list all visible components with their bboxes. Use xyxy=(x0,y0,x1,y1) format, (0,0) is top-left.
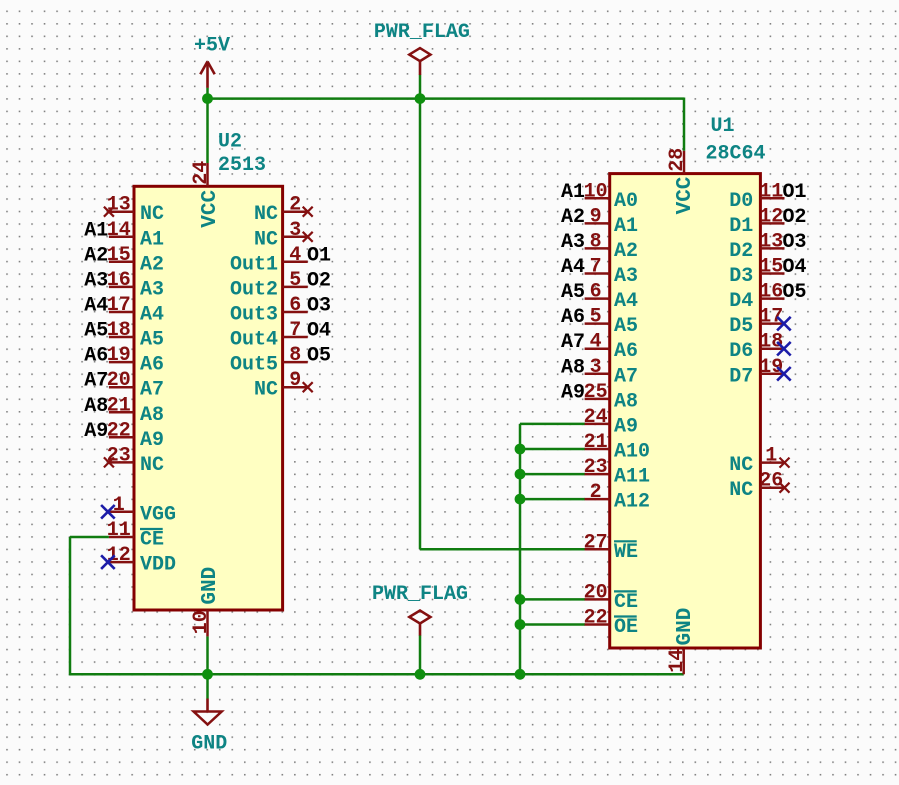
svg-text:A9: A9 xyxy=(84,420,108,443)
svg-text:28C64: 28C64 xyxy=(706,143,766,166)
junction node A12 bus xyxy=(515,494,526,505)
U2 pin 23 (NC) left xyxy=(104,444,164,477)
U1 pin 14 (GND) bottom xyxy=(666,608,697,673)
svg-text:11: 11 xyxy=(107,519,131,542)
junction node PWR_FLAG bottom xyxy=(415,669,426,680)
net label A6 (U1 pin 5) xyxy=(561,306,585,329)
svg-text:22: 22 xyxy=(107,419,131,442)
net label O1 (U2 pin 4) xyxy=(307,244,331,267)
U1 pin 7 (A3) left xyxy=(585,256,638,289)
U1 value 28C64 xyxy=(706,143,766,166)
svg-text:A1: A1 xyxy=(561,181,585,204)
svg-text:A3: A3 xyxy=(84,269,108,292)
svg-text:A7: A7 xyxy=(140,379,164,402)
svg-text:23: 23 xyxy=(584,456,608,479)
svg-text:A4: A4 xyxy=(614,290,638,313)
U1 pin 9 (A1) left xyxy=(585,205,638,238)
svg-text:A2: A2 xyxy=(614,240,638,263)
svg-text:Out4: Out4 xyxy=(230,329,278,352)
svg-text:A8: A8 xyxy=(84,395,108,418)
svg-text:6: 6 xyxy=(590,281,602,304)
wire: U2 GND pin 10 down to bus and GND symbol xyxy=(206,636,209,698)
U2 pin 8 (Out5) right xyxy=(230,344,308,377)
wire: stub to U1 A12 pin2 xyxy=(520,498,585,501)
svg-text:8: 8 xyxy=(289,344,301,367)
U2 pin 4 (Out1) right xyxy=(230,244,308,277)
svg-text:16: 16 xyxy=(107,269,131,292)
U1 pin 24 (A9) left xyxy=(584,406,638,439)
svg-text:18: 18 xyxy=(107,319,131,342)
wire: +5V top bus from +5V node to U1 VCC corner xyxy=(208,97,685,100)
svg-text:GND: GND xyxy=(674,608,697,646)
svg-text:A4: A4 xyxy=(84,295,108,318)
svg-text:A5: A5 xyxy=(140,329,164,352)
net label A4 (U2 pin 17) xyxy=(84,295,108,318)
wire: stub to U1 A11 pin23 xyxy=(520,473,585,476)
svg-text:U1: U1 xyxy=(711,115,735,138)
U2 pin 17 (A4) left xyxy=(107,294,164,327)
svg-text:D0: D0 xyxy=(729,190,753,213)
power symbol GND xyxy=(191,699,227,756)
junction node GND/U2 xyxy=(202,669,213,680)
svg-text:Out3: Out3 xyxy=(230,304,278,327)
svg-text:A10: A10 xyxy=(614,441,650,464)
U2 pin 3 (NC) right xyxy=(254,219,313,252)
svg-text:Out1: Out1 xyxy=(230,253,278,276)
wire: U1 GND pin 14 stub xyxy=(682,648,685,674)
net label O2 (U1 pin 12) xyxy=(783,206,807,229)
U2 pin 7 (Out4) right xyxy=(230,319,308,352)
svg-text:3: 3 xyxy=(590,356,602,379)
wire: bottom GND bus xyxy=(70,673,684,676)
net label A6 (U2 pin 19) xyxy=(84,345,108,368)
U1 pin 22 (OE) left xyxy=(584,607,638,640)
svg-text:22: 22 xyxy=(584,607,608,630)
svg-text:O4: O4 xyxy=(783,256,807,279)
svg-text:+5V: +5V xyxy=(194,35,230,58)
svg-text:24: 24 xyxy=(584,406,608,429)
svg-text:17: 17 xyxy=(107,294,131,317)
U1 pin 28 (VCC) top xyxy=(666,148,697,215)
U2 value 2513 xyxy=(218,154,266,177)
svg-text:14: 14 xyxy=(107,219,131,242)
wire: stub to U1 A9 pin24 xyxy=(520,423,585,426)
U1 pin 19 (D7) right xyxy=(729,356,790,389)
svg-text:A2: A2 xyxy=(561,206,585,229)
svg-text:27: 27 xyxy=(584,531,608,554)
net label A9 (U1 pin 25) xyxy=(561,381,585,404)
U1 pin 13 (D2) right xyxy=(729,230,784,263)
U1 pin 8 (A2) left xyxy=(585,230,638,263)
U1 pin 23 (A11) left xyxy=(584,456,650,489)
svg-text:A4: A4 xyxy=(561,256,585,279)
svg-text:NC: NC xyxy=(254,228,278,251)
net label A8 (U1 pin 3) xyxy=(561,356,585,379)
net label A7 (U1 pin 4) xyxy=(561,331,585,354)
svg-text:A2: A2 xyxy=(140,253,164,276)
svg-text:10: 10 xyxy=(584,180,608,203)
svg-text:11: 11 xyxy=(759,180,783,203)
svg-text:26: 26 xyxy=(759,470,783,493)
svg-text:19: 19 xyxy=(107,344,131,367)
svg-text:8: 8 xyxy=(590,230,602,253)
svg-text:WE: WE xyxy=(614,541,638,564)
U2 pin 19 (A6) left xyxy=(107,344,164,377)
junction node PWR_FLAG top xyxy=(415,93,426,104)
U1 pin 18 (D6) right xyxy=(729,331,790,364)
wire: horizontal to U1 pin 27 WE xyxy=(420,548,585,551)
svg-text:20: 20 xyxy=(107,369,131,392)
wire: U2 VCC drop from top bus to pin 24 xyxy=(206,88,209,163)
svg-text:A0: A0 xyxy=(614,190,638,213)
svg-text:U2: U2 xyxy=(218,131,242,154)
svg-text:2: 2 xyxy=(590,481,602,504)
U2 pin 10 (GND) bottom xyxy=(190,567,222,637)
U2 pin 20 (A7) left xyxy=(107,369,164,402)
svg-text:A11: A11 xyxy=(614,466,650,489)
svg-text:VCC: VCC xyxy=(199,189,222,227)
svg-text:A1: A1 xyxy=(614,215,638,238)
svg-text:A7: A7 xyxy=(561,331,585,354)
svg-text:4: 4 xyxy=(289,244,301,267)
svg-text:NC: NC xyxy=(140,203,164,226)
svg-text:NC: NC xyxy=(729,454,753,477)
svg-text:A6: A6 xyxy=(561,306,585,329)
svg-text:O2: O2 xyxy=(307,269,331,292)
svg-text:O1: O1 xyxy=(307,244,331,267)
U1 pin 3 (A7) left xyxy=(585,356,638,389)
net label A3 (U1 pin 8) xyxy=(561,231,585,254)
U1 pin 2 (A12) left xyxy=(585,481,650,513)
wire: PWR_FLAG (bottom) stem to bus xyxy=(419,635,422,674)
U1 pin 20 (CE) left xyxy=(584,581,638,614)
wire: stub to U1 A10 pin21 xyxy=(520,448,585,451)
svg-text:A5: A5 xyxy=(614,315,638,338)
U2 pin 11 (CE) left xyxy=(107,519,164,552)
svg-text:O5: O5 xyxy=(307,345,331,368)
U1 pin 10 (A0) left xyxy=(584,180,638,213)
U2 pin 5 (Out2) right xyxy=(230,269,308,302)
svg-text:A6: A6 xyxy=(140,354,164,377)
svg-text:A6: A6 xyxy=(84,345,108,368)
svg-text:NC: NC xyxy=(254,203,278,226)
svg-text:Out2: Out2 xyxy=(230,278,278,301)
svg-text:3: 3 xyxy=(289,219,301,242)
svg-text:25: 25 xyxy=(584,381,608,404)
U1 pin 1 (NC) right xyxy=(729,445,789,478)
svg-text:D2: D2 xyxy=(729,240,753,263)
svg-text:GND: GND xyxy=(199,567,222,605)
IC U1 body (28C64) xyxy=(610,174,761,648)
U1 reference designator xyxy=(711,115,735,138)
U2 pin 13 (NC) left xyxy=(104,194,164,227)
svg-text:A9: A9 xyxy=(140,429,164,452)
net label O4 (U2 pin 7) xyxy=(307,320,331,343)
svg-text:21: 21 xyxy=(107,394,131,417)
wire: stub to U1 OE pin22 xyxy=(520,623,585,626)
svg-text:A1: A1 xyxy=(84,219,108,242)
svg-text:D5: D5 xyxy=(729,315,753,338)
U1 pin 12 (D1) right xyxy=(729,205,784,238)
U2 pin 9 (NC) right xyxy=(254,369,313,402)
svg-text:VCC: VCC xyxy=(674,176,697,214)
net label A9 (U2 pin 22) xyxy=(84,420,108,443)
net label O1 (U1 pin 11) xyxy=(783,181,807,204)
svg-text:A8: A8 xyxy=(561,356,585,379)
net label A2 (U1 pin 9) xyxy=(561,206,585,229)
svg-text:A4: A4 xyxy=(140,304,164,327)
svg-text:O1: O1 xyxy=(783,181,807,204)
svg-text:9: 9 xyxy=(289,369,301,392)
svg-text:4: 4 xyxy=(590,331,602,354)
svg-text:15: 15 xyxy=(107,244,131,267)
U1 pin 5 (A5) left xyxy=(585,306,638,339)
svg-text:O2: O2 xyxy=(783,206,807,229)
svg-text:CE: CE xyxy=(614,591,638,614)
U2 reference designator xyxy=(218,131,242,154)
svg-text:VDD: VDD xyxy=(140,554,176,577)
U2 pin 24 (VCC) top xyxy=(190,161,222,228)
svg-text:A6: A6 xyxy=(614,340,638,363)
svg-text:A7: A7 xyxy=(84,370,108,393)
U1 pin 26 (NC) right xyxy=(729,470,789,503)
svg-text:VGG: VGG xyxy=(140,503,176,526)
svg-text:21: 21 xyxy=(584,431,608,454)
net label A4 (U1 pin 7) xyxy=(561,256,585,279)
svg-text:14: 14 xyxy=(666,649,689,673)
svg-text:D7: D7 xyxy=(729,365,753,388)
svg-text:D3: D3 xyxy=(729,265,753,288)
svg-text:5: 5 xyxy=(590,306,602,329)
U2 pin 16 (A3) left xyxy=(107,269,164,302)
svg-text:O3: O3 xyxy=(783,231,807,254)
power symbol +5V xyxy=(194,35,230,88)
junction node OE bus xyxy=(515,619,526,630)
junction node bus/bottom xyxy=(515,669,526,680)
svg-text:7: 7 xyxy=(590,256,602,279)
IC U2 body (2513) xyxy=(134,186,283,610)
svg-text:A9: A9 xyxy=(614,415,638,438)
junction node CE bus xyxy=(515,594,526,605)
svg-text:NC: NC xyxy=(254,379,278,402)
svg-text:O4: O4 xyxy=(307,320,331,343)
U2 pin 1 (VGG) left xyxy=(101,494,176,527)
net label O3 (U2 pin 6) xyxy=(307,295,331,318)
U2 pin 14 (A1) left xyxy=(107,219,164,252)
U1 pin 17 (D5) right xyxy=(729,306,790,339)
net label A1 (U2 pin 14) xyxy=(84,219,108,242)
svg-text:CE: CE xyxy=(140,529,164,552)
svg-text:12: 12 xyxy=(759,205,783,228)
junction node A10 bus xyxy=(515,444,526,455)
svg-text:PWR_FLAG: PWR_FLAG xyxy=(372,583,468,606)
net label A8 (U2 pin 21) xyxy=(84,395,108,418)
net label A1 (U1 pin 10) xyxy=(561,181,585,204)
svg-text:A8: A8 xyxy=(614,390,638,413)
net label O5 (U2 pin 8) xyxy=(307,345,331,368)
net label O5 (U1 pin 16) xyxy=(783,281,807,304)
svg-text:A5: A5 xyxy=(561,281,585,304)
svg-text:17: 17 xyxy=(759,306,783,329)
net label A5 (U2 pin 18) xyxy=(84,320,108,343)
svg-text:A9: A9 xyxy=(561,381,585,404)
svg-text:OE: OE xyxy=(614,616,638,639)
U2 pin 22 (A9) left xyxy=(107,419,164,452)
svg-text:A8: A8 xyxy=(140,404,164,427)
power symbol PWR_FLAG (top) xyxy=(374,21,470,75)
net label A3 (U2 pin 16) xyxy=(84,269,108,292)
svg-text:6: 6 xyxy=(289,294,301,317)
U1 pin 25 (A8) left xyxy=(584,381,638,414)
svg-text:9: 9 xyxy=(590,205,602,228)
U2 pin 21 (A8) left xyxy=(107,394,164,427)
wire: vertical from PWR_FLAG junction down to WE line xyxy=(419,75,422,550)
svg-text:2: 2 xyxy=(289,194,301,217)
net label A2 (U2 pin 15) xyxy=(84,244,108,267)
U1 pin 15 (D3) right xyxy=(729,256,784,289)
wire: U1 VCC drop from top bus corner down to pin 28 xyxy=(683,98,686,151)
svg-text:A5: A5 xyxy=(84,320,108,343)
net label O3 (U1 pin 13) xyxy=(783,231,807,254)
svg-text:7: 7 xyxy=(289,319,301,342)
svg-text:A7: A7 xyxy=(614,365,638,388)
svg-text:A12: A12 xyxy=(614,491,650,514)
svg-text:O5: O5 xyxy=(783,281,807,304)
svg-text:10: 10 xyxy=(190,610,213,634)
svg-text:24: 24 xyxy=(190,161,213,185)
net label A5 (U1 pin 6) xyxy=(561,281,585,304)
net label A7 (U2 pin 20) xyxy=(84,370,108,393)
U2 pin 2 (NC) right xyxy=(254,194,313,227)
U1 pin 4 (A6) left xyxy=(585,331,638,364)
U1 pin 27 (WE) left xyxy=(584,531,638,564)
svg-text:NC: NC xyxy=(140,454,164,477)
svg-text:20: 20 xyxy=(584,581,608,604)
U2 pin 15 (A2) left xyxy=(107,244,164,277)
U1 pin 6 (A4) left xyxy=(585,281,638,314)
U2 pin 18 (A5) left xyxy=(107,319,164,352)
svg-text:D6: D6 xyxy=(729,340,753,363)
svg-text:A3: A3 xyxy=(140,278,164,301)
svg-text:D4: D4 xyxy=(729,290,753,313)
svg-text:NC: NC xyxy=(729,479,753,502)
svg-text:16: 16 xyxy=(759,281,783,304)
svg-text:2513: 2513 xyxy=(218,154,266,177)
svg-text:19: 19 xyxy=(759,356,783,379)
svg-text:Out5: Out5 xyxy=(230,354,278,377)
junction node A11 bus xyxy=(515,469,526,480)
svg-text:A3: A3 xyxy=(561,231,585,254)
svg-text:A3: A3 xyxy=(614,265,638,288)
power symbol PWR_FLAG (bottom) xyxy=(372,583,468,636)
svg-text:28: 28 xyxy=(666,148,689,172)
U2 pin 6 (Out3) right xyxy=(230,294,308,327)
svg-text:O3: O3 xyxy=(307,295,331,318)
svg-text:D1: D1 xyxy=(729,215,753,238)
U1 pin 21 (A10) left xyxy=(584,431,650,464)
svg-text:15: 15 xyxy=(759,256,783,279)
svg-text:A1: A1 xyxy=(140,228,164,251)
svg-text:PWR_FLAG: PWR_FLAG xyxy=(374,21,470,44)
wire: stub to U1 CE pin20 xyxy=(520,598,585,601)
net label O2 (U2 pin 5) xyxy=(307,269,331,292)
svg-text:13: 13 xyxy=(759,230,783,253)
svg-text:A2: A2 xyxy=(84,244,108,267)
wire: left riser from bottom bus up to U2 CE xyxy=(70,537,109,675)
U1 pin 11 (D0) right xyxy=(729,180,784,213)
svg-text:GND: GND xyxy=(191,732,227,755)
U1 pin 16 (D4) right xyxy=(729,281,784,314)
svg-text:5: 5 xyxy=(289,269,301,292)
svg-text:18: 18 xyxy=(759,331,783,354)
wire: A9-A12/CE/OE vertical bus at x=520 xyxy=(519,424,522,674)
svg-text:1: 1 xyxy=(765,445,777,468)
junction node +5V/U2-VCC xyxy=(202,93,213,104)
U2 pin 12 (VDD) left xyxy=(101,544,176,577)
net label O4 (U1 pin 15) xyxy=(783,256,807,279)
